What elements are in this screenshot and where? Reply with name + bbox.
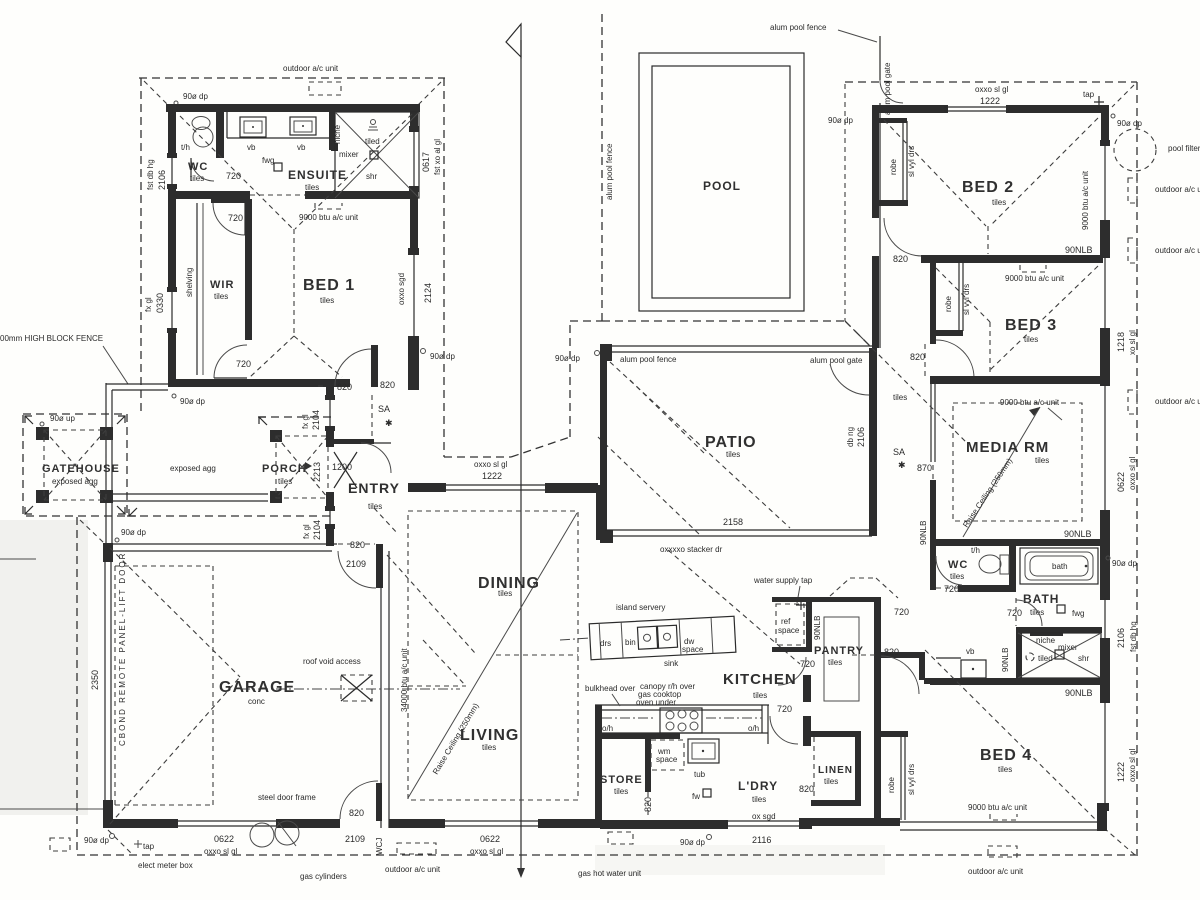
entry ceiling dashed [371, 395, 373, 440]
outdoor ac dashed + label bottom left [397, 843, 436, 854]
svg-text:space: space [656, 755, 678, 764]
svg-text:90NLB: 90NLB [1065, 688, 1093, 698]
svg-text:BATH: BATH [1023, 592, 1059, 606]
pantry east wall [874, 597, 881, 742]
svg-text:2104: 2104 [311, 410, 321, 430]
bed1 south wall [168, 379, 350, 387]
svg-text:PATIO: PATIO [705, 434, 757, 451]
svg-text:BED 4: BED 4 [980, 747, 1032, 764]
bed2/bed3 divider [921, 255, 1103, 263]
svg-text:2116: 2116 [752, 835, 771, 845]
svg-text:L'DRY: L'DRY [738, 779, 778, 793]
wc south wall [958, 585, 1016, 592]
svg-text:tiles: tiles [998, 765, 1012, 774]
valley dashed diagonals [387, 555, 475, 653]
pantry top wall [812, 597, 880, 602]
bed4 eave corner diagonal [1097, 822, 1135, 855]
svg-text:720: 720 [236, 359, 251, 369]
svg-text:00mm HIGH BLOCK FENCE: 00mm HIGH BLOCK FENCE [0, 334, 103, 343]
svg-text:sl vyl drs: sl vyl drs [907, 146, 916, 177]
svg-text:tiles: tiles [950, 572, 964, 581]
dining north wall east block [545, 483, 598, 493]
pool fence corner diagonal [845, 321, 871, 347]
svg-text:0617: 0617 [421, 152, 431, 172]
pool fence dashed west line [601, 14, 603, 321]
vb bed4 hall [961, 660, 986, 678]
bed1 west wall [168, 104, 176, 157]
svg-text:drs: drs [600, 639, 611, 648]
scan shading left margin [0, 520, 88, 815]
entry west wall segments [326, 379, 334, 398]
dashed dp line near pool [844, 84, 846, 321]
svg-text:820: 820 [337, 382, 352, 392]
svg-text:1222: 1222 [980, 96, 1000, 106]
ensuite north wall [166, 104, 420, 112]
svg-text:water supply tap: water supply tap [753, 576, 813, 585]
gatehouse posts [36, 427, 49, 440]
cooktop [660, 708, 702, 733]
shower rose [371, 120, 376, 125]
svg-text:xo sl gl: xo sl gl [1128, 330, 1137, 355]
svg-text:tiles: tiles [305, 183, 319, 192]
bed4 ceiling diagonal [925, 650, 1096, 820]
svg-text:870: 870 [917, 463, 932, 473]
fwg bath [1057, 605, 1065, 613]
svg-text:sink: sink [664, 659, 679, 668]
garage north wall double [104, 543, 337, 545]
WC/WIR divider wall [176, 191, 250, 199]
svg-text:2104: 2104 [312, 520, 322, 540]
right wing eave east [1136, 82, 1138, 856]
patio ceiling diagonal [610, 362, 790, 528]
bed3 west wall lower + door [930, 336, 936, 344]
svg-text:steel door frame: steel door frame [258, 793, 316, 802]
bed1 eave corner diagonals [144, 81, 168, 105]
svg-text:2124: 2124 [423, 283, 433, 303]
dining/living ceiling divider segments [408, 685, 466, 687]
svg-text:POOL: POOL [703, 179, 741, 193]
svg-text:oven under: oven under [636, 698, 676, 707]
svg-text:0622: 0622 [1116, 472, 1126, 492]
svg-text:fst db hg: fst db hg [146, 159, 155, 190]
garage roof hips [110, 548, 240, 677]
svg-text:fx gl: fx gl [302, 524, 311, 539]
bed3 robe [930, 262, 936, 336]
svg-text:db ng: db ng [846, 427, 855, 447]
media west wall sliding door [930, 384, 932, 462]
south arrowhead of boundary [517, 868, 525, 878]
svg-text:tiles: tiles [824, 777, 838, 786]
svg-text:tiles: tiles [992, 198, 1006, 207]
walls east of kitchen [803, 675, 811, 702]
svg-text:exposed agg: exposed agg [170, 464, 216, 473]
svg-text:CBOND REMOTE PANEL-LIFT DOOR: CBOND REMOTE PANEL-LIFT DOOR [118, 552, 127, 746]
svg-text:exposed agg: exposed agg [52, 477, 98, 486]
roof void access box [341, 675, 372, 701]
svg-text:fw: fw [692, 792, 700, 801]
svg-text:820: 820 [350, 540, 365, 550]
left eave dashed [76, 517, 78, 855]
svg-text:820: 820 [799, 784, 814, 794]
wc door arc [936, 556, 962, 585]
svg-text:2109: 2109 [346, 559, 366, 569]
svg-text:90NLB: 90NLB [813, 616, 822, 640]
svg-text:outdoor a/c u: outdoor a/c u [1155, 246, 1200, 255]
living south wall [389, 819, 445, 828]
svg-text:2109: 2109 [345, 834, 365, 844]
shower box bed4 side [1018, 633, 1101, 678]
WC room right wall [216, 112, 224, 158]
niche wall [329, 112, 335, 150]
svg-text:alum pool fence: alum pool fence [605, 143, 614, 200]
svg-text:SA: SA [378, 404, 390, 414]
svg-text:outdoor a/c u: outdoor a/c u [1155, 397, 1200, 406]
gatehouse eave dashed [23, 414, 127, 516]
svg-text:90NLB: 90NLB [919, 521, 928, 545]
east wall strip [410, 104, 418, 130]
svg-text:720: 720 [226, 171, 241, 181]
svg-text:90ø up: 90ø up [50, 414, 75, 423]
svg-text:robe: robe [944, 295, 953, 312]
svg-text:t/h: t/h [181, 143, 190, 152]
west wall of wing [872, 105, 879, 218]
svg-text:90ø dp: 90ø dp [680, 838, 705, 847]
svg-text:90ø dp: 90ø dp [1112, 559, 1137, 568]
garage NW corner block [103, 543, 113, 562]
bed4 south wall [900, 821, 1100, 823]
svg-text:0622: 0622 [480, 834, 500, 844]
island servery [589, 616, 736, 660]
svg-text:robe: robe [887, 776, 896, 793]
svg-text:tiles: tiles [614, 787, 628, 796]
porch posts [270, 430, 282, 442]
svg-text:mixer: mixer [339, 150, 359, 159]
corner foot block [600, 530, 613, 543]
svg-text:WIR: WIR [210, 279, 234, 291]
raise ceiling leader [408, 513, 577, 798]
pool outer rect [639, 53, 804, 311]
dining/living ceiling dashed rect [408, 511, 578, 800]
dining north window thin [446, 484, 545, 486]
patio north wall double [610, 345, 872, 347]
WIR shelving [196, 203, 198, 375]
svg-text:fx gl: fx gl [301, 414, 310, 429]
svg-text:tub: tub [694, 770, 706, 779]
patio south wall (stacker) [605, 529, 872, 531]
svg-text:tiles: tiles [214, 292, 228, 301]
svg-text:oxxo sl gl: oxxo sl gl [470, 847, 504, 856]
svg-text:niche: niche [333, 124, 342, 144]
hall wall above bed4 [879, 652, 924, 658]
hall west wall [874, 652, 881, 820]
svg-text:tap: tap [143, 842, 155, 851]
ensuite-wir door arc [213, 203, 245, 235]
garage SW corner block [103, 800, 113, 828]
svg-text:9000 btu a/c unit: 9000 btu a/c unit [299, 213, 359, 222]
svg-text:oxxo sgd: oxxo sgd [397, 273, 406, 305]
svg-text:720: 720 [777, 704, 792, 714]
bed4 robe [879, 731, 908, 737]
linen walls [811, 731, 860, 737]
svg-text:820: 820 [349, 808, 364, 818]
svg-text:alum pool fence: alum pool fence [620, 355, 677, 364]
svg-text:robe: robe [889, 158, 898, 175]
ensuite/bed1 divider east part [305, 191, 418, 199]
svg-text:tiled: tiled [1038, 654, 1053, 663]
svg-text:oxxo sl gl: oxxo sl gl [975, 85, 1009, 94]
svg-text:1218: 1218 [1116, 332, 1126, 352]
svg-text:tiles: tiles [1030, 608, 1044, 617]
svg-text:✱: ✱ [385, 418, 393, 428]
svg-text:ref: ref [781, 617, 791, 626]
svg-text:conc: conc [248, 697, 265, 706]
svg-text:oxxo sl gl: oxxo sl gl [1128, 748, 1137, 782]
entry court eave right vertical [443, 78, 445, 457]
media ceiling dashed rect [953, 403, 1082, 521]
wm space dashed [651, 740, 684, 770]
svg-text:90ø dp: 90ø dp [84, 836, 109, 845]
big hip dashes center [598, 437, 700, 535]
pool fence solid east line [879, 36, 881, 80]
porch eave dashed top [258, 416, 333, 418]
fence vertical double [105, 383, 107, 543]
svg-text:90ø dp: 90ø dp [183, 92, 208, 101]
svg-text:2106: 2106 [856, 427, 866, 447]
svg-text:tiles: tiles [828, 658, 842, 667]
bottom eave dashed [77, 854, 1136, 856]
garage east wall double [380, 544, 382, 828]
svg-text:tiles: tiles [482, 743, 496, 752]
patio west wall [600, 361, 607, 531]
svg-text:9000 btu a/c unit: 9000 btu a/c unit [1005, 274, 1065, 283]
wc door arc [191, 158, 214, 181]
svg-text:fx gl: fx gl [144, 297, 153, 312]
svg-text:tiles: tiles [1035, 456, 1049, 465]
svg-text:o/h: o/h [602, 724, 613, 733]
svg-text:tiles: tiles [726, 450, 740, 459]
hip dash through hall [847, 323, 966, 442]
svg-text:9000 btu a/c unit: 9000 btu a/c unit [1081, 170, 1090, 230]
entry court eave step [444, 456, 511, 458]
north arrow flag [506, 24, 521, 57]
svg-text:820: 820 [910, 352, 925, 362]
patio NW pier [600, 344, 612, 361]
ensuite shower box [335, 112, 419, 198]
west window fx gl 0330 [171, 290, 173, 330]
svg-text:elect meter box: elect meter box [138, 861, 193, 870]
pool filter circle [1114, 129, 1156, 171]
svg-text:bulkhead over: bulkhead over [585, 684, 636, 693]
svg-text:BED 1: BED 1 [303, 277, 355, 294]
garage ridge dash-dot [240, 688, 460, 690]
sgd end blocks [408, 248, 419, 255]
svg-text:720: 720 [800, 659, 815, 669]
svg-text:LIVING: LIVING [460, 727, 519, 744]
toilet wc [979, 555, 1001, 573]
svg-text:9000 btu a/c unit: 9000 btu a/c unit [968, 803, 1028, 812]
svg-text:o/h: o/h [748, 724, 759, 733]
bath tub [1020, 548, 1098, 584]
media south wall [936, 539, 1103, 546]
svg-text:90ø dp: 90ø dp [828, 116, 853, 125]
svg-text:WC: WC [948, 559, 968, 571]
patio east wall [869, 348, 877, 410]
svg-text:ox sgd: ox sgd [752, 812, 776, 821]
west window fst db hg [171, 157, 173, 186]
svg-text:gas cylinders: gas cylinders [300, 872, 347, 881]
right wing eave top [845, 81, 1137, 83]
svg-text:90ø dp: 90ø dp [555, 354, 580, 363]
vanity basin 2 [290, 117, 316, 135]
svg-text:vb: vb [966, 647, 975, 656]
pool inner rect [652, 66, 790, 298]
svg-text:roof void access: roof void access [303, 657, 361, 666]
bed1 door leaf + arc [335, 349, 372, 386]
svg-text:2213: 2213 [312, 462, 322, 482]
svg-text:2158: 2158 [723, 517, 743, 527]
svg-text:tiles: tiles [498, 589, 512, 598]
pool fence dashed south line [602, 320, 845, 322]
gatehouse corner arrows [25, 416, 33, 424]
svg-text:outdoor a/c unit: outdoor a/c unit [385, 865, 441, 874]
fence double to porch [113, 493, 268, 495]
bed2 robe [879, 118, 907, 123]
svg-text:1222: 1222 [482, 471, 502, 481]
svg-text:sl vyl drs: sl vyl drs [907, 764, 916, 795]
svg-text:720: 720 [228, 213, 243, 223]
svg-text:oxxo sl gl: oxxo sl gl [1128, 456, 1137, 490]
outdoor ac dashed boxes right [1128, 178, 1137, 203]
svg-text:WCJ: WCJ [375, 838, 384, 855]
svg-text:alum pool fence: alum pool fence [770, 23, 827, 32]
vanity basin 1 [240, 117, 266, 137]
svg-text:space: space [778, 626, 800, 635]
garage eave corner diagonals [80, 520, 104, 543]
svg-text:oxxo sl gl: oxxo sl gl [204, 847, 238, 856]
divider dashed opening [250, 194, 305, 196]
bed3/media divider [930, 376, 1103, 384]
svg-text:vb: vb [297, 143, 306, 152]
ref space dashed [776, 604, 804, 645]
svg-text:1222: 1222 [1116, 762, 1126, 782]
svg-text:GARAGE: GARAGE [219, 679, 295, 696]
svg-text:pool filter: pool filter [1168, 144, 1200, 153]
svg-text:fwg: fwg [262, 156, 274, 165]
svg-text:island servery: island servery [616, 603, 665, 612]
svg-text:KITCHEN: KITCHEN [723, 671, 797, 688]
svg-text:MEDIA RM: MEDIA RM [966, 439, 1049, 456]
svg-text:0330: 0330 [155, 293, 165, 313]
svg-text:GATEHOUSE: GATEHOUSE [42, 463, 120, 475]
kitchen-pantry door arc [778, 657, 806, 685]
svg-text:gas hot water unit: gas hot water unit [578, 869, 642, 878]
wc right wall [1009, 546, 1016, 592]
svg-text:alum pool gate: alum pool gate [810, 356, 863, 365]
garage-entry door: opening + leaf + arc [376, 544, 383, 588]
svg-text:tiles: tiles [753, 691, 767, 700]
garage ceiling dashed rect [115, 565, 213, 567]
kitchen area hip [668, 550, 800, 664]
gatehouse inner dashed + X [44, 430, 106, 500]
pantry shelf outline [824, 617, 859, 701]
svg-text:2106: 2106 [157, 170, 167, 190]
svg-text:90NLB: 90NLB [1001, 648, 1010, 672]
svg-text:90ø dp: 90ø dp [180, 397, 205, 406]
kitchen NW corner wall down [596, 485, 605, 540]
bed1 ceiling dashes [180, 116, 293, 229]
STORE room [595, 735, 602, 823]
landscape circles bottom [250, 823, 274, 847]
svg-text:ENSUITE: ENSUITE [288, 168, 347, 182]
svg-text:90NLB: 90NLB [1065, 245, 1093, 255]
svg-text:SA: SA [893, 447, 905, 457]
fence horizontal to house [106, 383, 168, 385]
svg-text:tiles: tiles [752, 795, 766, 804]
svg-text:tiles: tiles [893, 393, 907, 402]
svg-text:fst db hg: fst db hg [1129, 621, 1138, 652]
vanity bench line [227, 137, 330, 139]
wir door arc bottom [214, 345, 247, 378]
sgd east thin line [413, 252, 415, 338]
svg-text:oxxxxo stacker dr: oxxxxo stacker dr [660, 545, 723, 554]
svg-text:90ø dp: 90ø dp [430, 352, 455, 361]
svg-text:fwg: fwg [1072, 609, 1084, 618]
svg-text:PORCH: PORCH [262, 463, 307, 475]
svg-text:90ø dp: 90ø dp [121, 528, 146, 537]
svg-text:BED 3: BED 3 [1005, 317, 1057, 334]
svg-text:outdoor a/c unit: outdoor a/c unit [968, 867, 1024, 876]
svg-text:34000 btu a/c unit: 34000 btu a/c unit [400, 648, 409, 712]
WIR top lintel [211, 199, 250, 203]
svg-text:space: space [682, 645, 704, 654]
svg-text:✱: ✱ [898, 460, 906, 470]
garage rear door arc [340, 781, 378, 819]
svg-text:BED 2: BED 2 [962, 179, 1014, 196]
media raise ceiling leader [963, 407, 1040, 537]
patio gate arc [830, 364, 869, 395]
svg-text:720: 720 [1007, 608, 1022, 618]
hip junction near patio SE [830, 578, 850, 596]
svg-text:2350: 2350 [90, 670, 100, 690]
svg-text:720: 720 [894, 607, 909, 617]
svg-text:820: 820 [893, 254, 908, 264]
svg-text:2106: 2106 [1116, 628, 1126, 648]
garage south wall [103, 819, 178, 828]
outdoor a/c dashed box [309, 82, 341, 95]
svg-text:bin: bin [625, 638, 636, 647]
svg-text:tiled: tiled [365, 137, 380, 146]
bed2 door arc [884, 218, 922, 256]
svg-text:tiles: tiles [320, 296, 334, 305]
bed1 block eave top [139, 77, 445, 79]
WIR right wall [245, 199, 252, 340]
shower square [370, 151, 378, 159]
svg-text:tiles: tiles [278, 477, 292, 486]
entry door arc [361, 443, 391, 473]
svg-text:0622: 0622 [214, 834, 234, 844]
outdoor ac bed4 [988, 846, 1017, 857]
svg-text:820: 820 [884, 647, 899, 657]
svg-text:shr: shr [366, 172, 377, 181]
pool gate arc [880, 80, 903, 103]
porch inner dashed + X [276, 436, 328, 498]
svg-text:shelving: shelving [185, 268, 194, 297]
svg-text:niche: niche [1036, 636, 1056, 645]
bed2 ceiling dashes [884, 120, 986, 226]
bath/shr divider [1016, 627, 1102, 633]
kitchen east door arc [770, 716, 798, 744]
svg-text:fst xo al gl: fst xo al gl [433, 139, 442, 175]
